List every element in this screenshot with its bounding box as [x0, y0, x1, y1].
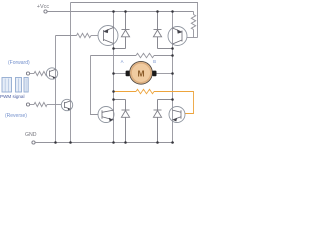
PWM waveform pulse 1 [2, 78, 12, 93]
motor terminal left [126, 71, 130, 77]
wire node A vertical [113, 12, 115, 112]
wire Q6 emitter [70, 109, 72, 142]
wire motor lead A [114, 73, 127, 75]
wire node B vertical [172, 12, 174, 108]
wire Vcc rail [47, 11, 193, 13]
wire R3 to Q1 base [91, 35, 98, 37]
terminal +Vcc [44, 10, 47, 13]
svg-text:A: A [121, 59, 124, 64]
wire R4 to Q2 base [193, 30, 195, 38]
wire R5 to node B [154, 55, 173, 57]
resistor R6 (lower middle, orange) [136, 89, 154, 93]
svg-text:PWM signal: PWM signal [0, 94, 25, 99]
svg-text:(Forward): (Forward) [8, 60, 30, 66]
wire cross-couple row to Q3 base [91, 55, 137, 57]
junction dots [54, 10, 174, 144]
wire Vcc rail to R4 [193, 12, 195, 15]
diode D3 [114, 100, 130, 143]
wire R2 to Q6 base [47, 104, 61, 106]
resistor R4 (right edge, vertical) [191, 15, 195, 30]
terminal GND [32, 141, 35, 144]
wire Q5 emitter [55, 78, 57, 143]
svg-text:+Vcc: +Vcc [37, 4, 50, 10]
motor terminal right [152, 71, 156, 77]
PWM waveform pulse 2 [16, 78, 22, 93]
wire Q3 base riser [91, 56, 99, 115]
wire cross-couple row node A to Q4 base (orange) [114, 89, 194, 113]
resistor R5 (upper middle) [136, 53, 154, 57]
PWM waveform pulse 3 [24, 78, 28, 93]
transistor Q5 (Forward driver NPN) [46, 68, 57, 79]
transistor Q1 (upper-left PNP) [98, 26, 118, 46]
svg-text:GND: GND [25, 132, 37, 138]
transistor Q6 (Reverse driver NPN) [61, 99, 72, 110]
resistor R1 (Forward base) [34, 71, 47, 75]
diode D2 [153, 12, 172, 49]
transistor Q3 (lower-left NPN) [98, 107, 114, 123]
wire top drive line from Q6 collector to right edge [71, 3, 198, 38]
wire Q6 collector riser [70, 3, 72, 101]
diode D4 [153, 100, 172, 143]
terminal Reverse [26, 103, 29, 106]
wire Q5 collector riser [55, 36, 57, 70]
wire Q2 base lead [187, 37, 198, 39]
transistor Q2 (upper-right PNP) [168, 27, 187, 46]
svg-text:B: B [153, 59, 156, 64]
resistor R2 (Reverse base) [34, 102, 47, 106]
diode D1 [114, 12, 130, 49]
terminal Forward [26, 72, 29, 75]
wire Forward input [30, 73, 34, 75]
motor M1 [130, 61, 153, 84]
svg-text:M: M [137, 68, 144, 78]
svg-text:(Reverse): (Reverse) [5, 113, 27, 119]
transistor Q4 (lower-right NPN) [169, 107, 185, 123]
wire GND rail [35, 142, 174, 144]
resistor R3 (upper-left PNP base) [77, 33, 92, 37]
wire Reverse input [30, 104, 34, 106]
wire Q5 collector to R3 [56, 35, 77, 37]
wire motor lead B [157, 73, 173, 75]
